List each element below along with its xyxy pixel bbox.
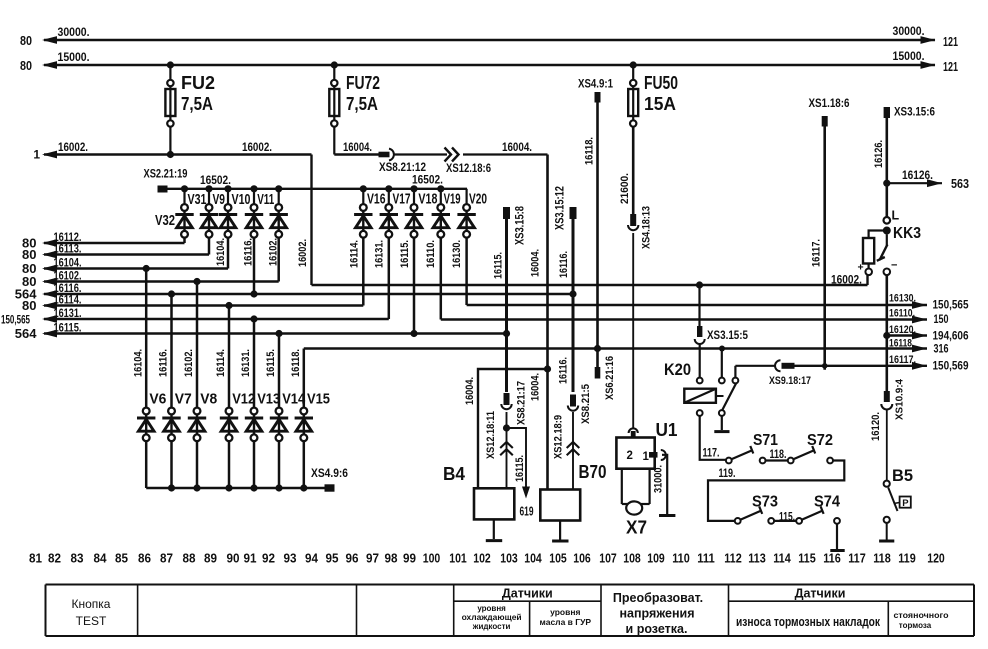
svg-text:81: 81 <box>29 552 42 566</box>
svg-text:S73: S73 <box>752 494 778 511</box>
svg-text:B5: B5 <box>892 466 913 485</box>
svg-text:16004.: 16004. <box>502 140 532 154</box>
svg-text:16120.: 16120. <box>870 412 882 441</box>
svg-text:уровня: уровня <box>550 607 580 617</box>
svg-text:16116.: 16116. <box>558 357 570 384</box>
svg-text:B4: B4 <box>443 464 465 484</box>
svg-text:91: 91 <box>244 552 257 566</box>
svg-text:194,606: 194,606 <box>933 331 969 343</box>
svg-text:90: 90 <box>227 552 240 566</box>
svg-text:105: 105 <box>549 552 567 566</box>
svg-text:7,5A: 7,5A <box>181 94 213 114</box>
svg-text:XS4.9:6: XS4.9:6 <box>311 468 348 480</box>
svg-text:Датчики: Датчики <box>502 587 553 601</box>
svg-text:L: L <box>892 209 900 223</box>
svg-text:XS2.21:19: XS2.21:19 <box>144 169 188 181</box>
svg-text:V32: V32 <box>155 213 175 229</box>
svg-text:16115.: 16115. <box>54 323 82 335</box>
svg-text:121: 121 <box>943 34 958 49</box>
svg-text:16114.: 16114. <box>349 240 361 268</box>
svg-text:16502.: 16502. <box>200 173 231 187</box>
svg-text:31000.: 31000. <box>653 465 665 493</box>
svg-text:16110.: 16110. <box>425 240 437 268</box>
svg-text:16117.: 16117. <box>811 239 823 267</box>
svg-text:V10: V10 <box>232 192 251 208</box>
svg-text:Кнопка: Кнопка <box>72 597 111 611</box>
svg-text:XS6.21:16: XS6.21:16 <box>604 356 616 400</box>
svg-text:82: 82 <box>48 552 61 566</box>
svg-text:16118.: 16118. <box>290 349 302 377</box>
svg-text:16115.: 16115. <box>265 349 277 377</box>
svg-text:XS3.15:8: XS3.15:8 <box>515 206 527 245</box>
svg-text:V11: V11 <box>257 192 274 208</box>
svg-text:117: 117 <box>848 552 866 566</box>
svg-text:113: 113 <box>748 552 766 566</box>
svg-text:тормоза: тормоза <box>899 621 932 630</box>
svg-text:V18: V18 <box>418 192 437 208</box>
svg-text:1: 1 <box>33 148 40 162</box>
svg-text:напряжения: напряжения <box>620 607 695 621</box>
svg-text:101: 101 <box>449 552 467 566</box>
svg-text:150,565: 150,565 <box>1 313 30 327</box>
svg-text:S72: S72 <box>807 432 833 449</box>
svg-text:84: 84 <box>94 552 107 566</box>
svg-text:16116.: 16116. <box>558 251 570 278</box>
svg-text:FU72: FU72 <box>346 73 380 93</box>
svg-text:16116.: 16116. <box>158 349 170 377</box>
svg-text:15000.: 15000. <box>58 50 90 64</box>
svg-text:FU50: FU50 <box>644 73 678 93</box>
svg-text:109: 109 <box>647 552 665 566</box>
svg-text:119: 119 <box>898 552 916 566</box>
svg-text:16002.: 16002. <box>242 140 272 154</box>
svg-text:и розетка.: и розетка. <box>626 622 688 636</box>
svg-text:16002.: 16002. <box>831 273 862 287</box>
svg-text:уровня: уровня <box>477 604 506 613</box>
svg-text:121: 121 <box>943 59 958 74</box>
svg-text:K20: K20 <box>664 360 691 379</box>
svg-text:104: 104 <box>524 552 542 566</box>
svg-text:V20: V20 <box>469 192 487 208</box>
svg-text:118: 118 <box>873 552 891 566</box>
svg-text:XS3.15:6: XS3.15:6 <box>894 107 935 119</box>
svg-text:87: 87 <box>160 552 173 566</box>
svg-text:88: 88 <box>183 552 196 566</box>
svg-text:80: 80 <box>22 247 36 262</box>
svg-text:16115.: 16115. <box>399 240 411 268</box>
svg-text:115: 115 <box>798 552 816 566</box>
svg-text:V17: V17 <box>393 192 411 208</box>
svg-text:16102.: 16102. <box>183 349 195 377</box>
svg-text:16117.: 16117. <box>889 354 916 366</box>
svg-text:98: 98 <box>385 552 398 566</box>
svg-text:16115.: 16115. <box>493 252 505 279</box>
svg-text:16004.: 16004. <box>530 249 542 277</box>
svg-text:15000.: 15000. <box>893 49 925 63</box>
svg-text:83: 83 <box>71 552 84 566</box>
svg-text:108: 108 <box>623 552 641 566</box>
svg-text:111: 111 <box>697 552 715 566</box>
svg-text:V8: V8 <box>200 392 217 408</box>
svg-text:16113.: 16113. <box>54 244 82 256</box>
svg-text:масла в ГУР: масла в ГУР <box>540 617 592 627</box>
svg-text:114: 114 <box>773 552 791 566</box>
svg-text:150,565: 150,565 <box>933 300 970 312</box>
svg-text:+: + <box>858 262 864 274</box>
svg-text:7,5A: 7,5A <box>346 94 378 114</box>
svg-text:жидкости: жидкости <box>472 622 511 631</box>
svg-text:16002.: 16002. <box>58 140 88 154</box>
svg-text:16130.: 16130. <box>451 240 463 268</box>
svg-text:B70: B70 <box>579 462 607 482</box>
svg-text:21600.: 21600. <box>619 173 631 204</box>
svg-text:XS4.9:1: XS4.9:1 <box>578 79 614 91</box>
svg-text:XS1.18:6: XS1.18:6 <box>809 98 850 110</box>
svg-text:80: 80 <box>20 33 32 48</box>
svg-text:316: 316 <box>934 344 949 356</box>
svg-text:118.: 118. <box>770 447 787 461</box>
svg-text:V16: V16 <box>367 192 386 208</box>
svg-text:V19: V19 <box>444 192 461 208</box>
svg-text:117.: 117. <box>703 446 720 460</box>
svg-text:80: 80 <box>22 298 36 313</box>
svg-text:95: 95 <box>326 552 339 566</box>
svg-text:V13: V13 <box>257 392 280 408</box>
svg-text:XS10.9:4: XS10.9:4 <box>894 379 906 420</box>
svg-text:16126.: 16126. <box>873 140 885 168</box>
svg-text:охлаждающей: охлаждающей <box>462 613 522 622</box>
svg-text:16115.: 16115. <box>514 455 526 482</box>
svg-text:Датчики: Датчики <box>795 587 846 601</box>
svg-text:XS4.18:13: XS4.18:13 <box>641 206 653 249</box>
svg-text:16116.: 16116. <box>54 283 82 295</box>
svg-text:16004.: 16004. <box>343 140 372 154</box>
svg-text:30000.: 30000. <box>58 25 90 39</box>
svg-text:102: 102 <box>473 552 491 566</box>
svg-text:XS12.18:6: XS12.18:6 <box>446 163 491 175</box>
svg-text:1: 1 <box>643 451 650 463</box>
svg-text:S74: S74 <box>814 494 840 511</box>
svg-text:16110.: 16110. <box>889 308 915 320</box>
svg-text:92: 92 <box>262 552 275 566</box>
svg-text:16131.: 16131. <box>240 349 252 377</box>
svg-text:V12: V12 <box>232 392 255 408</box>
svg-text:120: 120 <box>927 552 945 566</box>
svg-text:119.: 119. <box>719 466 736 480</box>
svg-text:619: 619 <box>520 505 534 519</box>
svg-text:16114.: 16114. <box>215 349 227 377</box>
svg-text:V31: V31 <box>188 192 207 208</box>
svg-text:106: 106 <box>573 552 591 566</box>
svg-text:−: − <box>891 260 897 272</box>
svg-text:XS9.18:17: XS9.18:17 <box>769 375 811 387</box>
svg-text:X7: X7 <box>626 518 647 538</box>
svg-text:564: 564 <box>15 326 37 341</box>
svg-text:85: 85 <box>115 552 128 566</box>
svg-text:стояночного: стояночного <box>894 611 949 620</box>
svg-text:150: 150 <box>934 314 949 326</box>
svg-text:износа тормозных накладок: износа тормозных накладок <box>736 615 881 629</box>
svg-text:16102.: 16102. <box>54 271 82 283</box>
svg-text:30000.: 30000. <box>893 24 925 38</box>
svg-text:V7: V7 <box>175 392 192 408</box>
svg-text:V9: V9 <box>213 192 226 208</box>
svg-text:V14: V14 <box>282 392 305 408</box>
svg-text:XS8.21:17: XS8.21:17 <box>516 381 528 425</box>
svg-text:110: 110 <box>672 552 690 566</box>
svg-text:TEST: TEST <box>76 614 107 628</box>
svg-text:16126.: 16126. <box>902 168 933 182</box>
svg-text:16120.: 16120. <box>889 324 916 336</box>
svg-text:XS8.21:5: XS8.21:5 <box>580 384 592 424</box>
svg-text:96: 96 <box>346 552 359 566</box>
svg-text:99: 99 <box>403 552 416 566</box>
svg-text:116: 116 <box>823 552 841 566</box>
svg-text:16104.: 16104. <box>215 238 227 266</box>
svg-text:100: 100 <box>423 552 441 566</box>
svg-text:16104.: 16104. <box>132 349 144 377</box>
svg-text:89: 89 <box>204 552 217 566</box>
svg-text:16116.: 16116. <box>243 238 255 266</box>
svg-text:P: P <box>902 498 909 509</box>
svg-text:Преобразоват.: Преобразоват. <box>613 591 703 605</box>
svg-text:150,569: 150,569 <box>933 361 969 373</box>
svg-text:16004.: 16004. <box>530 373 542 401</box>
svg-text:2: 2 <box>627 450 633 462</box>
svg-text:FU2: FU2 <box>181 73 215 93</box>
svg-text:U1: U1 <box>656 420 678 440</box>
svg-text:115.: 115. <box>779 510 795 524</box>
svg-text:93: 93 <box>284 552 297 566</box>
svg-text:16114.: 16114. <box>54 295 82 307</box>
svg-text:16004.: 16004. <box>464 377 476 405</box>
svg-text:XS12.18:9: XS12.18:9 <box>553 415 565 459</box>
svg-text:103: 103 <box>500 552 518 566</box>
svg-text:16131.: 16131. <box>374 240 386 268</box>
svg-text:15A: 15A <box>644 94 676 114</box>
svg-text:V6: V6 <box>149 392 166 408</box>
svg-text:16130.: 16130. <box>889 293 916 305</box>
svg-text:97: 97 <box>366 552 379 566</box>
svg-text:16118: 16118 <box>889 338 912 350</box>
svg-text:XS3.15:12: XS3.15:12 <box>555 186 567 230</box>
svg-text:16118.: 16118. <box>584 137 596 165</box>
svg-text:94: 94 <box>305 552 318 566</box>
svg-text:16112.: 16112. <box>54 232 82 244</box>
svg-text:16002.: 16002. <box>297 239 309 267</box>
svg-text:563: 563 <box>951 176 969 191</box>
svg-text:16104.: 16104. <box>54 258 82 270</box>
svg-text:107: 107 <box>599 552 617 566</box>
svg-text:XS12.18:11: XS12.18:11 <box>485 411 497 459</box>
svg-text:KK3: KK3 <box>893 225 921 242</box>
svg-text:80: 80 <box>20 58 32 73</box>
svg-text:XS3.15:5: XS3.15:5 <box>707 330 749 342</box>
svg-text:16502.: 16502. <box>412 173 443 187</box>
svg-text:112: 112 <box>724 552 742 566</box>
svg-text:V15: V15 <box>307 392 330 408</box>
svg-text:16131.: 16131. <box>54 308 82 320</box>
svg-text:86: 86 <box>138 552 151 566</box>
